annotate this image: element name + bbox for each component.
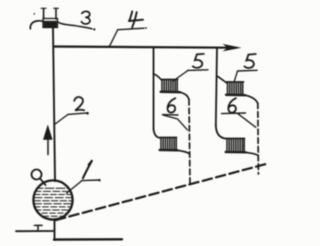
label 3 dot	[93, 28, 95, 30]
radiator 6 right: bottom edge	[226, 151, 246, 154]
label 5 left leader	[173, 70, 189, 81]
radiator 5 left: bottom edge	[161, 91, 180, 94]
label 2 leader	[55, 114, 69, 124]
radiator 5 right: top edge	[226, 81, 243, 83]
branch riser 1 (left group)	[153, 48, 155, 130]
label 6 right leader	[238, 114, 256, 128]
return main dashed diagonal	[56, 164, 266, 220]
main riser pipe 2 (boiler to tank)	[53, 28, 55, 181]
gauge circle on boiler	[32, 170, 42, 180]
radiator 6 right: top edge	[226, 137, 245, 139]
label 4 leader	[110, 30, 118, 47]
label 1 underline	[82, 179, 100, 182]
drain pipe left	[16, 230, 54, 232]
speck dot	[34, 13, 36, 15]
overflow pipe curve	[30, 21, 43, 29]
radiator 5 right: fins	[228, 83, 243, 95]
branch riser 2 (right group)	[216, 48, 217, 126]
riser 2 elbow into radiator 6 right	[216, 125, 226, 139]
radiator 6 left: bottom edge	[160, 149, 178, 152]
label 6 right	[228, 98, 236, 112]
label 5 right	[244, 54, 255, 68]
label 4	[129, 11, 143, 27]
label 1 underline dot	[98, 179, 100, 181]
label 2 underline dot	[86, 112, 89, 115]
label 1 leader	[67, 181, 83, 194]
label 3	[81, 11, 90, 24]
supply main arrowhead	[223, 44, 242, 52]
return drop dashed (left group)	[189, 100, 190, 184]
radiator 5 left: fins	[162, 80, 177, 91]
drain tap stem	[37, 226, 39, 231]
label 6 left	[168, 98, 176, 112]
expansion tank 3 body	[43, 19, 58, 28]
flow arrow head	[43, 125, 53, 140]
drain tap bar	[35, 224, 43, 226]
boiler 1 shell	[33, 180, 72, 219]
expansion tank right wall	[55, 9, 57, 20]
label 6 left underline	[163, 114, 179, 116]
label 4 underline dot	[145, 27, 147, 29]
label 2 underline	[68, 113, 87, 115]
label 6 right underline	[222, 112, 246, 115]
boiler water hatching	[34, 188, 72, 216]
label 5 right leader	[234, 71, 237, 81]
expansion tank left wall cap	[41, 7, 46, 9]
label 6 left leader	[163, 115, 188, 130]
radiator 5 left inlet stub	[154, 74, 162, 80]
radiator 5 right: bottom edge	[226, 94, 245, 97]
label 2	[74, 97, 84, 111]
label 5 right underline	[238, 69, 257, 72]
radiator 6 right: fins	[227, 139, 244, 151]
radiator 5 right outlet elbow	[245, 95, 258, 103]
label 1	[83, 161, 92, 178]
radiator 6 right outlet	[246, 152, 258, 155]
bottom pipe line	[54, 238, 122, 241]
radiator 6 left: top edge	[160, 136, 177, 138]
expansion tank left wall	[43, 9, 45, 20]
flow arrow shaft	[47, 133, 49, 155]
label 5 left	[193, 54, 204, 68]
riser elbow into radiator 6 left	[154, 128, 161, 138]
label 4 underline	[118, 28, 144, 30]
label 5 left underline	[188, 69, 209, 72]
label 3 leader squiggle	[58, 22, 92, 29]
radiator 6 left outlet	[178, 150, 190, 154]
radiator 5 left outlet elbow	[180, 92, 189, 99]
return drop dashed (right group)	[257, 103, 260, 174]
boiler outlet pipe down	[54, 219, 56, 240]
radiator 5 right inlet stub	[217, 76, 227, 83]
radiator 6 left: fins	[161, 138, 176, 149]
gauge connector	[40, 178, 46, 185]
expansion tank right wall cap	[54, 7, 59, 9]
supply main 4 horizontal pipe	[54, 47, 232, 48]
radiator 5 left: top edge	[161, 78, 178, 80]
